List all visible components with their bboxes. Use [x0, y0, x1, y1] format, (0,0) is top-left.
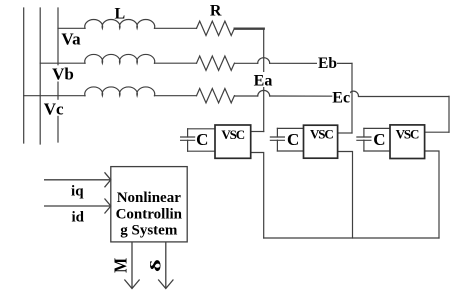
svg-text:Va: Va	[61, 30, 81, 49]
output arrow delta wire	[165, 242, 167, 288]
node Eb vertical line	[351, 63, 353, 133]
capacitor C1 bottom lead	[187, 140, 189, 151]
wire VSC1 top stub	[251, 131, 264, 133]
input arrow iq wire	[44, 179, 111, 181]
capacitor C2 top lead	[276, 128, 278, 137]
bus bar 2 (phase b source)	[39, 8, 41, 144]
wire bottom dc bus	[264, 237, 439, 239]
wire VSC2 top stub	[338, 132, 352, 134]
wire phase b crossover to node Eb	[270, 62, 352, 64]
svg-text:C: C	[373, 130, 385, 149]
capacitor C1 loop bottom wire	[188, 150, 215, 152]
node label Vc	[43, 99, 66, 118]
svg-text:id: id	[71, 210, 84, 226]
bus bar 3 (phase a source)	[57, 8, 59, 142]
node label Va	[61, 30, 82, 49]
svg-text:Ea: Ea	[254, 73, 273, 90]
controller block text	[116, 190, 183, 239]
svg-text:Ec: Ec	[332, 89, 350, 106]
capacitor C2 loop top wire	[277, 127, 303, 129]
capacitor C3 plates	[357, 137, 371, 140]
wire VSC1 bottom stub	[251, 153, 264, 239]
capacitor C3 loop bottom wire	[364, 150, 390, 152]
svg-text:VSC: VSC	[221, 127, 244, 142]
svg-text:R: R	[210, 2, 222, 19]
resistor R phase a	[197, 21, 235, 35]
capacitor C3 top lead	[363, 128, 365, 137]
node label Ea	[253, 72, 274, 90]
wire hop phase c over node Eb line	[349, 91, 359, 96]
node Ea vertical line	[263, 29, 265, 132]
input arrow id head	[105, 199, 111, 214]
converter U2 box	[304, 125, 338, 158]
wire phase c resistor to crossover	[235, 95, 258, 97]
input arrow iq head	[105, 172, 111, 187]
wire phase a resistor to node Ea (thick)	[235, 28, 264, 30]
wire phase a from bus to inductor	[58, 27, 85, 29]
wire phase b resistor to crossover	[235, 62, 258, 64]
output arrow M wire	[131, 242, 133, 288]
capacitor C1 loop top wire	[188, 128, 215, 130]
node label Vb	[52, 64, 74, 83]
svg-text:VSC: VSC	[310, 126, 333, 141]
svg-text:VSC: VSC	[396, 126, 419, 141]
input arrow id wire	[44, 205, 111, 207]
wire phase c from bus to inductor	[24, 95, 85, 97]
resistor R phase c	[197, 89, 235, 103]
wire hop phase b over node Ea line	[258, 58, 270, 64]
wire phase b inductor to resistor	[155, 62, 197, 64]
wire phase c crossover to node Ec	[270, 95, 349, 97]
inductor L phase b	[85, 54, 155, 63]
capacitor C2 bottom lead	[276, 140, 278, 151]
wire phase c inductor to resistor	[155, 95, 197, 97]
svg-text:Nonlinear: Nonlinear	[117, 190, 182, 206]
node Ec vertical line	[448, 96, 450, 132]
capacitor C2 plates	[270, 137, 284, 140]
controller block box	[111, 167, 187, 242]
wire phase b from bus to inductor	[40, 62, 85, 64]
capacitor C3 bottom lead	[363, 140, 365, 151]
inductor L phase a	[85, 20, 155, 29]
svg-text:C: C	[287, 130, 299, 149]
node label Ec	[332, 89, 350, 106]
inductor L phase c	[85, 87, 155, 96]
svg-text:Vc: Vc	[44, 99, 64, 118]
wire hop phase c over node Ea line	[258, 90, 270, 96]
capacitor C1 top lead	[187, 129, 189, 137]
output arrow delta head	[158, 280, 173, 289]
svg-text:Eb: Eb	[318, 55, 337, 72]
capacitor C1 plates	[181, 137, 195, 140]
converter U3 box	[390, 125, 425, 159]
svg-text:g System: g System	[120, 223, 178, 239]
svg-text:M: M	[111, 258, 131, 273]
svg-text:L: L	[114, 6, 125, 23]
capacitor C3 loop top wire	[364, 127, 390, 129]
converter U1 box	[215, 125, 251, 158]
bus bar 1 (phase c source)	[23, 8, 25, 143]
node label Eb	[317, 55, 337, 72]
wire VSC3 bottom stub	[425, 151, 439, 238]
svg-text:Vb: Vb	[52, 64, 74, 83]
wire phase c to far right	[359, 96, 450, 98]
wire phase a inductor to resistor	[155, 27, 197, 29]
svg-text:C: C	[196, 130, 208, 149]
svg-text:δ: δ	[148, 259, 164, 272]
resistor R phase b	[197, 56, 235, 70]
svg-text:Controllin: Controllin	[116, 207, 183, 223]
wire VSC3 top stub	[425, 131, 449, 133]
wire VSC2 bottom stub	[338, 152, 353, 239]
output arrow M head	[124, 280, 139, 289]
svg-text:iq: iq	[71, 183, 84, 199]
capacitor C2 loop bottom wire	[277, 150, 303, 152]
